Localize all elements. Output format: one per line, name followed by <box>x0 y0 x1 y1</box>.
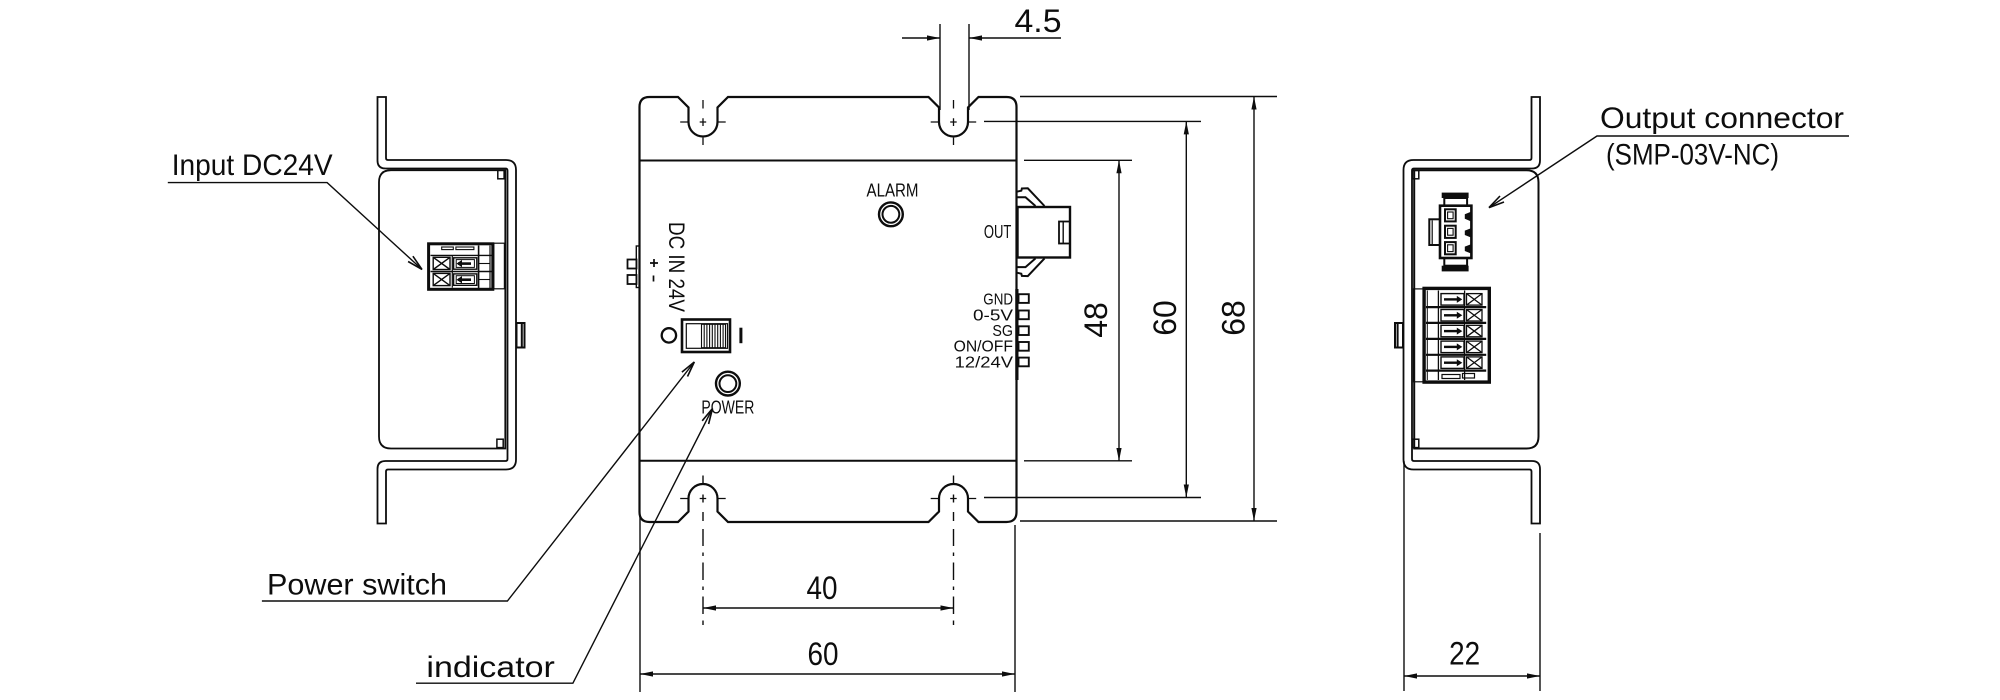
dim 68 extension bottom <box>1020 520 1277 522</box>
left view corner screw tab bottom-right <box>497 439 503 447</box>
dim 60 bottom extension right <box>1014 525 1016 692</box>
svg-text:OUT: OUT <box>984 221 1012 242</box>
input connector top vent slot 1 <box>442 247 454 250</box>
terminal block outer housing <box>1424 288 1489 382</box>
out connector top wing outer <box>1017 188 1045 206</box>
leader Output connector <box>1489 136 1849 208</box>
svg-text:Output connector: Output connector <box>1600 102 1844 135</box>
dim 22 extension right <box>1539 533 1541 691</box>
smp pin 2 <box>1445 226 1456 238</box>
input connector mid row divider <box>431 271 493 273</box>
svg-text:68: 68 <box>1216 300 1252 336</box>
terminal bottom partial row marks <box>1442 375 1460 379</box>
svg-text:Input DC24V: Input DC24V <box>172 149 333 182</box>
svg-text:Power switch: Power switch <box>267 569 447 602</box>
smp left tab <box>1429 219 1440 245</box>
switch outer frame <box>682 320 730 353</box>
dim 60 line <box>1185 121 1187 497</box>
arrow 68 top <box>1251 97 1256 110</box>
mounting slot centermark bottom-right <box>931 498 977 500</box>
right view DIN latch bump <box>1395 323 1403 348</box>
terminal clamp butterfly row2 <box>1467 310 1483 322</box>
input connector top vent slot 2 <box>456 247 474 250</box>
dim 4.5 extension line right <box>968 24 970 110</box>
input connector vertical divider left-column <box>451 255 453 287</box>
output pin 5 <box>1019 358 1029 367</box>
svg-text:ALARM: ALARM <box>867 180 919 201</box>
right view body (case outline) <box>1414 170 1538 448</box>
OUT connector (front view, right edge) <box>1017 188 1070 276</box>
DIMENSIONS <box>640 24 1540 692</box>
svg-text:DC IN 24V: DC IN 24V <box>664 222 689 312</box>
input connector top band line <box>431 254 493 256</box>
leader Power switch <box>262 362 694 601</box>
input clamp butterfly row1 <box>433 257 450 269</box>
leader arrowhead Output connector <box>1489 196 1504 208</box>
minus mark (rotated) <box>653 276 655 282</box>
svg-text:indicator: indicator <box>426 651 555 684</box>
svg-text:GND: GND <box>983 292 1013 309</box>
input clamp butterfly row2 <box>433 273 450 285</box>
RIGHT SIDE VIEW <box>1395 97 1540 524</box>
dim 60 bottom extension left <box>639 516 641 692</box>
terminal block row lines <box>1426 307 1486 371</box>
terminal block mounting flange <box>1413 289 1424 382</box>
input connector mounting flange <box>494 243 505 289</box>
dim 40 line <box>703 607 954 609</box>
switch inner frame <box>686 324 727 349</box>
panel silk-screen texts <box>664 180 1014 418</box>
terminal block divider right <box>1464 291 1466 381</box>
arrow 4.5 left <box>927 35 940 40</box>
terminal clamp butterfly row3 <box>1467 325 1483 337</box>
power switch <box>662 320 741 353</box>
svg-text:ON/OFF: ON/OFF <box>954 339 1014 356</box>
terminal row1 button + arrow <box>1441 294 1464 306</box>
left view DIN latch bump inner line <box>521 324 523 347</box>
mounting slot centermark bottom-left <box>680 498 726 500</box>
smp pin 3 <box>1445 242 1456 254</box>
input connector right column divider <box>489 246 491 289</box>
output pin 1 <box>1019 294 1029 303</box>
DC input tabs on front view left edge <box>628 246 640 288</box>
svg-text:0-5V: 0-5V <box>973 308 1013 325</box>
dim 60 extension bottom <box>984 497 1201 499</box>
out connector housing <box>1018 207 1071 258</box>
right view corner screw tab top-left <box>1413 170 1419 178</box>
front view inner top line <box>640 160 1017 162</box>
input connector outer housing <box>429 244 493 289</box>
alarm LED <box>879 202 903 226</box>
arrow 60b left <box>640 671 653 676</box>
terminal clamp butterfly row5 <box>1467 357 1483 369</box>
switch O symbol <box>662 328 676 342</box>
input connector block (left view) <box>429 243 505 289</box>
arrow 40 left <box>703 605 716 610</box>
dim 40 extension (centerline) left <box>702 476 704 626</box>
smp right notch 1 <box>1465 212 1471 222</box>
input connector vertical divider right-column <box>478 246 480 289</box>
arrow 22 right <box>1527 673 1540 678</box>
dc-in backing strip <box>636 246 639 288</box>
terminal block inner left line <box>1426 291 1428 381</box>
terminal row3 button + arrow <box>1441 325 1464 337</box>
leader indicator <box>416 409 713 684</box>
mounting slot centermark top-right <box>931 100 977 145</box>
switch knob hatched <box>702 324 726 347</box>
smp top collar <box>1444 198 1467 206</box>
dim 4.5 extension line left <box>939 24 941 110</box>
left view mounting bracket (bent sheet) <box>378 97 517 524</box>
output pin 4 <box>1019 342 1029 351</box>
terminal row2 button + arrow <box>1441 310 1464 322</box>
output pin 3 <box>1019 326 1029 335</box>
dim 68 line <box>1253 97 1255 522</box>
left view body (case outline) <box>379 170 505 448</box>
arrow 22 left <box>1404 673 1417 678</box>
left view DIN latch bump <box>517 323 525 348</box>
out connector bottom wing outer <box>1017 258 1045 276</box>
output SMP connector (right view) <box>1429 193 1471 272</box>
svg-text:22: 22 <box>1449 636 1480 672</box>
dc-in tab upper <box>628 260 637 269</box>
dim 40 extension (centerline) right <box>953 476 955 626</box>
LEADER LABELS <box>168 136 1849 683</box>
output pin 2 <box>1019 311 1029 320</box>
arrow 40 right <box>941 605 954 610</box>
power indicator LED <box>716 372 740 396</box>
out connector notch inner line <box>1062 222 1064 243</box>
terminal clamp butterfly row4 <box>1467 341 1483 353</box>
input lever button row1 <box>454 258 477 269</box>
arrow 60 bottom <box>1184 485 1189 498</box>
dim 22 extension left <box>1403 461 1405 691</box>
front view inner bottom line <box>640 460 1017 462</box>
dim 22 line <box>1404 675 1540 677</box>
svg-text:48: 48 <box>1078 302 1114 338</box>
dimension texts <box>807 3 1481 672</box>
leader Input DC24V <box>168 183 422 270</box>
dim 4.5 line left tail <box>902 37 940 39</box>
dim 48 line <box>1118 160 1120 461</box>
output pin header base strip <box>1015 289 1018 380</box>
dimension arrowheads <box>640 35 1540 678</box>
arrow 60b right <box>1002 671 1015 676</box>
svg-text:SG: SG <box>992 323 1013 340</box>
svg-text:12/24V: 12/24V <box>955 354 1014 371</box>
dim 48 extension top <box>1024 159 1132 161</box>
arrow 68 bottom <box>1251 508 1256 521</box>
out connector bottom wing inner <box>1017 258 1036 267</box>
smp bottom black bar <box>1442 266 1469 272</box>
out connector right notch <box>1059 222 1070 244</box>
smp pin 1 <box>1445 209 1456 221</box>
out connector top wing inner <box>1017 197 1036 206</box>
plus mark <box>650 259 658 267</box>
smp top black bar <box>1442 193 1469 198</box>
input lever button row2 <box>454 274 477 285</box>
leader arrowhead Power switch <box>682 362 694 377</box>
terminal row4 button + arrow <box>1441 341 1464 353</box>
right view corner screw tab bottom-left <box>1413 439 1419 447</box>
dim 68 extension top <box>1020 96 1277 98</box>
smp bottom collar <box>1444 258 1467 266</box>
svg-text:60: 60 <box>808 636 839 672</box>
terminal block (right view) <box>1413 288 1489 382</box>
smp housing <box>1440 206 1471 258</box>
arrow 48 bottom <box>1116 448 1121 461</box>
leader arrowhead indicator <box>702 409 712 425</box>
right view mounting bracket (bent sheet) <box>1404 97 1541 524</box>
dim 60 extension top <box>984 120 1201 122</box>
terminal row5 button + arrow <box>1441 357 1464 369</box>
leader arrowhead Input <box>408 256 422 269</box>
svg-text:4.5: 4.5 <box>1015 3 1062 39</box>
smp right notch 3 <box>1465 244 1471 253</box>
dim 60 bottom line <box>640 673 1015 675</box>
left view corner screw tab top-right <box>498 170 504 178</box>
right view DIN latch bump inner line <box>1397 324 1399 347</box>
mounting slot centermark top-left <box>680 100 726 145</box>
arrow 4.5 right <box>969 35 982 40</box>
input lever arrow row2 (points left) <box>458 278 471 281</box>
input connector right column cell lines <box>479 263 490 265</box>
svg-text:40: 40 <box>807 570 838 606</box>
terminal block divider left <box>1437 291 1439 381</box>
arrow 60 top <box>1184 121 1189 134</box>
terminal clamp butterfly row1 <box>1467 294 1483 306</box>
input lever arrow row1 (points left) <box>458 262 471 265</box>
dim 4.5 line right tail <box>969 37 1061 39</box>
smp right notch 2 <box>1465 228 1471 237</box>
front view body outline with mounting slots <box>640 97 1017 522</box>
svg-text:60: 60 <box>1147 300 1183 336</box>
svg-text:(SMP-03V-NC): (SMP-03V-NC) <box>1606 139 1779 172</box>
dim 48 extension bottom <box>1024 460 1132 462</box>
dc-in tab lower <box>628 275 637 284</box>
arrow 48 top <box>1116 160 1121 173</box>
switch I symbol <box>739 328 742 344</box>
